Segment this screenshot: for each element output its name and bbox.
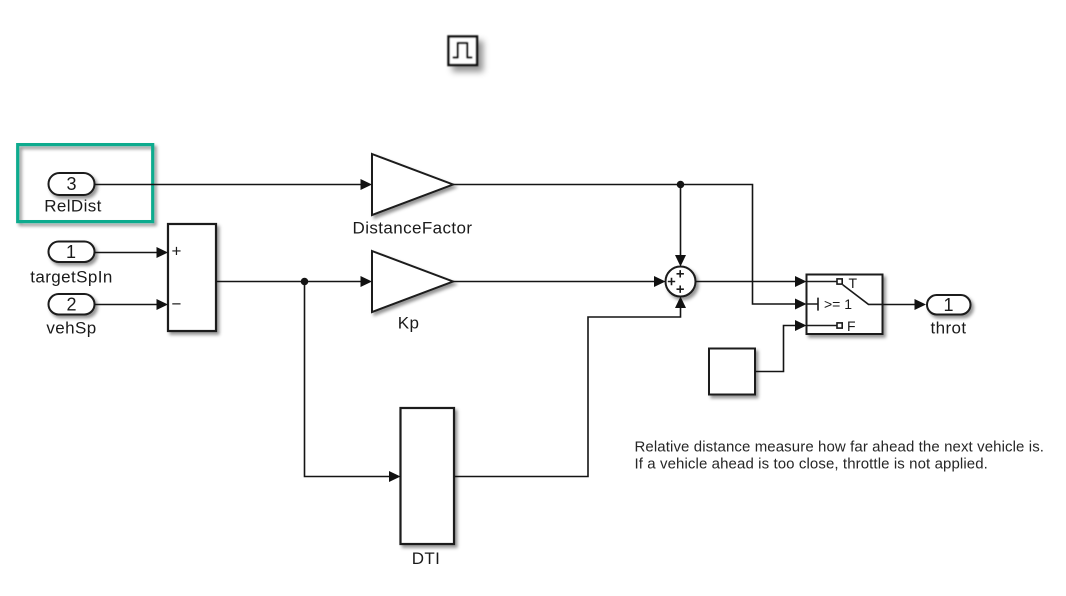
arrow into Kp xyxy=(361,276,373,287)
svg-text:T: T xyxy=(849,275,858,291)
wire switch output to throt xyxy=(883,304,916,306)
svg-text:DTI: DTI xyxy=(412,549,441,568)
junction dot on sum output xyxy=(301,278,309,286)
wire RelDist to DistanceFactor xyxy=(95,184,362,186)
wire constant to switch input 3 xyxy=(755,326,796,372)
selection box (teal) around RelDist xyxy=(18,145,153,222)
inport 2 vehSp xyxy=(49,294,95,315)
switch threshold mark xyxy=(807,298,819,311)
inport 3 RelDist xyxy=(49,173,95,195)
switch diagonal xyxy=(843,285,883,305)
svg-text:+: + xyxy=(172,242,182,261)
svg-text:If a vehicle ahead is too clos: If a vehicle ahead is too close, throttl… xyxy=(635,456,988,473)
wire Kp output to sum circle left xyxy=(453,281,655,283)
junction dot on DistanceFactor output xyxy=(677,181,685,189)
svg-text:3: 3 xyxy=(66,174,76,194)
svg-text:1: 1 xyxy=(66,242,76,262)
arrow into sum + xyxy=(157,247,169,258)
sum (add/subtract) block xyxy=(168,224,216,331)
DTI subsystem block xyxy=(401,408,455,544)
svg-text:2: 2 xyxy=(66,295,76,315)
arrow into DTI xyxy=(389,471,401,482)
switch block xyxy=(807,275,883,335)
svg-text:vehSp: vehSp xyxy=(46,319,96,338)
svg-text:targetSpIn: targetSpIn xyxy=(30,268,112,287)
wire sum to Kp with branch to DTI xyxy=(216,281,361,283)
inport 1 targetSpIn xyxy=(49,242,95,263)
svg-text:1: 1 xyxy=(943,295,953,315)
wire DistanceFactor output to switch input 2 xyxy=(453,185,796,305)
pulse generator block (blurred) xyxy=(449,37,478,66)
arrow into sum - xyxy=(157,299,169,310)
wire DTI output to sum circle bottom xyxy=(454,308,681,477)
svg-text:Kp: Kp xyxy=(398,314,420,333)
arrow into sum circle bottom xyxy=(675,297,686,309)
sum circle block xyxy=(666,267,696,297)
arrowheads xyxy=(157,179,927,482)
arrow into sum circle left xyxy=(654,276,666,287)
svg-text:>= 1: >= 1 xyxy=(824,296,852,312)
svg-text:RelDist: RelDist xyxy=(44,197,102,216)
svg-text:F: F xyxy=(847,318,856,334)
svg-text:DistanceFactor: DistanceFactor xyxy=(353,219,473,238)
arrow into sum circle top xyxy=(675,255,686,267)
arrow into DistanceFactor xyxy=(361,179,373,190)
arrow into throt xyxy=(915,299,927,310)
wire branch down to sum circle top xyxy=(680,185,682,256)
wire branch down to DTI xyxy=(305,282,390,477)
outport 1 throt xyxy=(927,295,971,315)
svg-text:throt: throt xyxy=(930,319,966,338)
arrow into switch input 1 xyxy=(795,276,807,287)
switch T port line xyxy=(807,281,837,283)
svg-text:−: − xyxy=(172,295,182,314)
constant block xyxy=(709,349,755,395)
wire vehSp to sum- xyxy=(95,304,158,306)
gain DistanceFactor xyxy=(372,154,453,215)
wire sum circle output to switch input 1 xyxy=(696,281,796,283)
gain Kp xyxy=(372,251,453,312)
svg-text:Relative distance measure how: Relative distance measure how far ahead … xyxy=(635,439,1045,456)
wire targetSpIn to sum+ xyxy=(95,252,158,254)
arrow into switch input 2 xyxy=(795,299,807,310)
arrow into switch input 3 xyxy=(795,320,807,331)
switch F port line xyxy=(807,325,837,327)
